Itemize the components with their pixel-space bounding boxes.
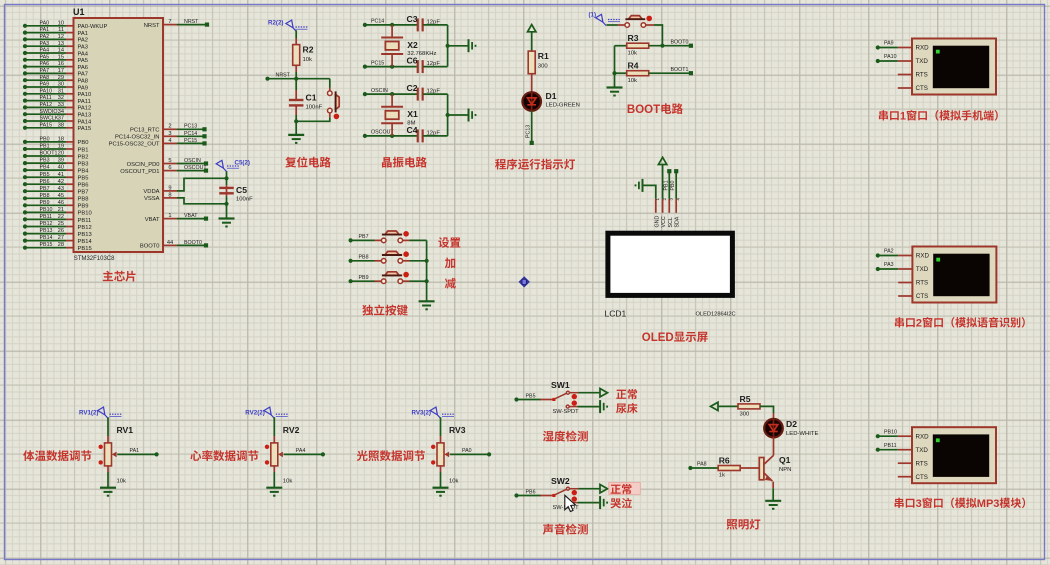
svg-text:PB15: PB15 <box>78 246 92 252</box>
svg-text:Q1: Q1 <box>779 455 791 465</box>
capacitor C4 <box>417 129 419 142</box>
wire RV2 bottom to ground <box>273 466 275 472</box>
wire PA9 to RXD <box>878 47 898 49</box>
svg-text:PB9: PB9 <box>40 200 50 206</box>
node VSSA junction <box>224 202 228 206</box>
transistor Q1 NPN <box>773 449 775 455</box>
blue origin marker R2(2) <box>286 20 293 28</box>
U1 left pin PB7 (pin 43) wire <box>25 190 66 192</box>
U1 left pin PA10 (pin 31) wire <box>25 93 66 95</box>
OLED display LCD1 body <box>608 233 733 295</box>
wire R5 to D2 <box>760 406 774 413</box>
node BOOT0 junction <box>660 44 664 48</box>
U1 left pin PA0 (pin 10) wire <box>25 25 66 27</box>
blue cursor cross marker <box>519 276 530 287</box>
U1 left pin PA5 (pin 15) wire <box>25 59 66 61</box>
svg-text:19: 19 <box>58 144 64 150</box>
svg-text:PB13: PB13 <box>78 232 92 238</box>
power arrow left of R5 <box>711 402 719 410</box>
wire SW2 top contact to power <box>570 488 579 490</box>
svg-text:PC14: PC14 <box>184 131 197 137</box>
U1 left pin PB8 (pin 45) wire <box>25 197 66 199</box>
svg-text:PA4: PA4 <box>78 51 89 57</box>
U1 left pin SWDIO (pin 34) wire <box>25 113 66 115</box>
svg-text:PA13: PA13 <box>78 113 92 119</box>
svg-text:LCD1: LCD1 <box>605 309 627 319</box>
U1 left pin PB10 (pin 21) wire <box>25 211 66 213</box>
svg-text:38: 38 <box>58 122 64 128</box>
svg-text:GND: GND <box>654 216 660 228</box>
svg-text:R5: R5 <box>740 394 751 404</box>
svg-text:PA9: PA9 <box>884 41 894 47</box>
svg-text:29: 29 <box>58 75 64 81</box>
svg-text:RTS: RTS <box>916 460 928 467</box>
svg-text:SW1: SW1 <box>551 380 570 390</box>
wire wiper to PA1 <box>117 453 156 455</box>
svg-text:10: 10 <box>58 20 64 26</box>
svg-text:PA12: PA12 <box>40 102 53 108</box>
wire GND pin to side ground <box>644 185 656 198</box>
svg-text:D2: D2 <box>786 419 797 429</box>
svg-text:32.768KHz: 32.768KHz <box>407 51 436 57</box>
LED D2 <box>764 419 783 438</box>
svg-text:10k: 10k <box>628 51 638 57</box>
ground (sideways) <box>468 109 470 122</box>
svg-text:SW2: SW2 <box>551 476 570 486</box>
svg-text:17: 17 <box>58 68 64 74</box>
label 体温数据调节 <box>23 450 34 461</box>
wire OSCOUT row <box>365 135 417 137</box>
ground below RV3 <box>433 487 449 489</box>
ground below key bus <box>419 300 435 302</box>
svg-text:TXD: TXD <box>916 266 929 273</box>
svg-text:PB0: PB0 <box>78 140 89 146</box>
svg-text:RV1(2): RV1(2) <box>79 410 99 417</box>
serial terminal window 3 (P3) <box>912 427 996 483</box>
ground below RV2 <box>266 487 282 489</box>
svg-text:RXD: RXD <box>916 45 930 52</box>
svg-text:PB5: PB5 <box>40 172 50 178</box>
ground (sideways) <box>468 39 470 52</box>
ground below C5 <box>219 217 235 219</box>
svg-text:SCL: SCL <box>668 217 674 227</box>
U1 left pin BOOT1 (pin 20) wire <box>25 155 66 157</box>
svg-text:PA2: PA2 <box>40 34 50 40</box>
svg-text:13: 13 <box>58 41 64 47</box>
wire power to R2 <box>295 30 297 38</box>
svg-text:9: 9 <box>168 185 171 191</box>
svg-text:CTS: CTS <box>916 85 928 92</box>
wire RV3 bottom to ground <box>440 466 442 472</box>
svg-text:PB7: PB7 <box>78 190 89 196</box>
svg-text:PA9: PA9 <box>40 82 50 88</box>
capacitor C2 <box>417 88 419 101</box>
wire wiper to PA0 <box>450 453 489 455</box>
svg-text:PA7: PA7 <box>40 68 50 74</box>
svg-text:VCC: VCC <box>661 216 667 227</box>
wire wiper to PA4 <box>284 453 323 455</box>
svg-text:PB7: PB7 <box>359 234 369 240</box>
svg-text:PB2: PB2 <box>78 154 89 160</box>
svg-text:SWDIO: SWDIO <box>40 109 58 115</box>
svg-text:6: 6 <box>168 165 171 171</box>
svg-text:PB3: PB3 <box>40 158 50 164</box>
resistor R6 <box>718 466 740 471</box>
svg-text:PA0-WKUP: PA0-WKUP <box>78 24 108 30</box>
main chip U1 STM32F103C8 body <box>74 18 164 252</box>
U1 left pin PA1 (pin 11) wire <box>25 32 66 34</box>
svg-text:PC14-OSC32_IN: PC14-OSC32_IN <box>115 135 159 141</box>
svg-text:PA8: PA8 <box>40 75 50 81</box>
wire keys ground bus <box>426 240 428 301</box>
svg-text:300: 300 <box>740 412 751 418</box>
node C1/button junction <box>294 119 298 123</box>
svg-text:2: 2 <box>916 318 922 330</box>
svg-text:C5(2): C5(2) <box>235 160 250 167</box>
svg-text:10k: 10k <box>117 479 127 485</box>
svg-text:PB11: PB11 <box>78 218 92 224</box>
svg-text:PA4: PA4 <box>40 48 50 54</box>
label 正常 (SW2) <box>611 485 621 494</box>
label 减 <box>445 278 456 289</box>
mouse cursor <box>565 495 576 511</box>
svg-text:R4: R4 <box>628 61 639 71</box>
push button BOOT <box>628 16 642 20</box>
wire PB10 to RXD <box>878 435 898 437</box>
ground below RV1 <box>100 487 116 489</box>
svg-text:PB14: PB14 <box>78 239 93 245</box>
wire button bottom branch <box>296 117 330 121</box>
label 正常 (SW1) <box>616 390 626 399</box>
svg-text:LED-WHITE: LED-WHITE <box>786 431 818 437</box>
svg-text:PA7: PA7 <box>78 72 89 78</box>
svg-text:(1): (1) <box>589 12 597 19</box>
svg-text:3: 3 <box>168 131 171 137</box>
svg-text:41: 41 <box>58 172 64 178</box>
LED D1 <box>522 92 541 111</box>
svg-text:1k: 1k <box>719 473 725 479</box>
U1 left pin PA6 (pin 16) wire <box>25 66 66 68</box>
svg-text:45: 45 <box>58 193 64 199</box>
wire R3 left to bus <box>615 45 627 47</box>
wire button top branch <box>329 79 331 88</box>
svg-text:BOOT: BOOT <box>627 104 660 116</box>
svg-text:PA8: PA8 <box>78 79 89 85</box>
svg-text:C3: C3 <box>407 14 418 24</box>
label 串口2窗口（模拟语音识别） <box>895 317 904 327</box>
capacitor C5 <box>219 187 234 189</box>
power arrow for OLED VCC <box>662 164 664 198</box>
push button key 设置 <box>385 231 399 235</box>
U1 left pin PA4 (pin 14) wire <box>25 52 66 54</box>
wire PB9 to key <box>351 280 375 282</box>
svg-text:PC13: PC13 <box>526 125 532 138</box>
U1 left pin PB12 (pin 25) wire <box>25 226 66 228</box>
svg-text:14: 14 <box>58 48 64 54</box>
label 程序运行指示灯 <box>495 159 506 170</box>
RV3 wiper arrow <box>444 452 449 458</box>
wire power to R1 <box>531 32 533 51</box>
wire R4 left <box>615 72 627 74</box>
svg-text:PB0: PB0 <box>670 180 676 190</box>
svg-text:OSCOUT: OSCOUT <box>184 165 207 171</box>
U1 left pin PB5 (pin 41) wire <box>25 176 66 178</box>
U1 right pin OSCIN (pin 5) wire <box>163 163 177 165</box>
svg-text:15: 15 <box>58 54 64 60</box>
svg-text:R2: R2 <box>303 45 314 55</box>
svg-text:PA2: PA2 <box>78 38 89 44</box>
wire SW1 bottom contact to ground <box>569 406 577 408</box>
svg-text:OSCIN: OSCIN <box>371 88 388 94</box>
svg-text:7: 7 <box>168 19 171 25</box>
wire PC15 row <box>365 66 417 68</box>
crystal X1 <box>391 94 393 107</box>
svg-text:MP3: MP3 <box>977 498 1000 510</box>
svg-text:STM32F103C8: STM32F103C8 <box>74 256 115 262</box>
label 照明灯 <box>727 519 738 529</box>
resistor R5 <box>738 404 760 409</box>
serial terminal window 2 (P2) <box>912 247 996 303</box>
wire R4 right / BOOT1 out <box>649 72 691 74</box>
wire PB6 to SW2 <box>517 495 542 497</box>
ground below bus <box>607 86 623 88</box>
wire power to R5 <box>718 405 738 407</box>
svg-text:BOOT1: BOOT1 <box>671 67 689 73</box>
U1 left pin PB14 (pin 27) wire <box>25 240 66 242</box>
crystal X2 <box>391 25 393 38</box>
svg-text:PB3: PB3 <box>78 161 89 167</box>
svg-text:PA10: PA10 <box>40 88 53 94</box>
wire C2 to ground riser <box>423 93 447 95</box>
svg-text:27: 27 <box>58 235 64 241</box>
svg-text:PB8: PB8 <box>359 254 369 260</box>
svg-text:SW-SPDT: SW-SPDT <box>553 409 580 415</box>
svg-text:34: 34 <box>58 109 64 115</box>
svg-text:11: 11 <box>58 27 64 33</box>
resistor R3 <box>627 43 649 48</box>
svg-text:22: 22 <box>58 214 64 220</box>
wire to boot button <box>606 24 617 26</box>
label 主芯片 <box>103 271 113 281</box>
wire PB5 to SW1 <box>517 399 542 401</box>
U1 left pin SWCLK (pin 37) wire <box>25 120 66 122</box>
svg-text:OSCIN_PD0: OSCIN_PD0 <box>127 162 160 168</box>
wire SW1 top contact to power <box>570 392 579 394</box>
svg-text:46: 46 <box>58 200 64 206</box>
wire key to bus <box>403 280 410 282</box>
resistor R1 <box>528 51 535 74</box>
svg-text:PA3: PA3 <box>884 262 894 268</box>
svg-text:PA1: PA1 <box>130 448 140 454</box>
label 加 <box>445 258 455 269</box>
svg-text:VSSA: VSSA <box>144 196 160 202</box>
node R4 left junction <box>612 71 616 75</box>
svg-text:C5: C5 <box>236 185 247 195</box>
U1 left pin PB6 (pin 42) wire <box>25 183 66 185</box>
svg-text:PA15: PA15 <box>40 122 53 128</box>
svg-text:40: 40 <box>58 165 64 171</box>
svg-text:CTS: CTS <box>916 293 928 300</box>
svg-text:PB10: PB10 <box>78 211 92 217</box>
ground below Q1 <box>765 500 781 502</box>
wire Q1 emitter to ground <box>772 482 774 489</box>
svg-text:10k: 10k <box>628 78 638 84</box>
svg-text:PA3: PA3 <box>78 45 89 51</box>
svg-text:OLED12864I2C: OLED12864I2C <box>696 312 736 318</box>
node VDDA junction <box>224 176 228 180</box>
RV1 wiper arrow <box>112 452 117 458</box>
svg-text:R6: R6 <box>719 456 730 466</box>
wire PA10 to TXD <box>878 60 898 62</box>
svg-text:PB5: PB5 <box>526 393 536 399</box>
wire to side ground <box>448 45 468 47</box>
wire C4 to ground riser <box>423 135 447 137</box>
capacitor C3 <box>417 18 419 31</box>
svg-text:VDDA: VDDA <box>143 189 159 195</box>
svg-text:NRST: NRST <box>276 72 291 78</box>
svg-text:R2(2): R2(2) <box>268 20 283 27</box>
wire ground riser <box>447 94 449 136</box>
svg-text:U1: U1 <box>73 7 85 17</box>
capacitor C6 <box>417 60 419 73</box>
wire OSCIN row <box>365 93 417 95</box>
svg-text:42: 42 <box>58 179 64 185</box>
svg-text:BOOT0: BOOT0 <box>184 240 202 246</box>
svg-text:BOOT0: BOOT0 <box>671 40 689 46</box>
U1 left pin PB0 (pin 18) wire <box>25 141 66 143</box>
potentiometer RV3 <box>437 443 444 466</box>
wire NRST node down to C1 <box>295 79 297 90</box>
svg-text:PB1: PB1 <box>663 180 669 190</box>
svg-text:16: 16 <box>58 61 64 67</box>
svg-text:33: 33 <box>58 102 64 108</box>
svg-text:PB4: PB4 <box>40 165 50 171</box>
push button reset <box>336 94 340 109</box>
U1 right pin VBAT (pin 1) wire <box>163 218 177 220</box>
label 声音检测 <box>543 524 554 535</box>
label 湿度检测 <box>543 431 554 441</box>
svg-text:C1: C1 <box>306 93 317 103</box>
svg-text:PA11: PA11 <box>78 99 91 105</box>
svg-text:PC15-OSC32_OUT: PC15-OSC32_OUT <box>109 142 160 148</box>
node key bus junction 2 <box>425 279 429 283</box>
svg-text:43: 43 <box>58 186 64 192</box>
label 尿床 <box>616 403 626 413</box>
svg-text:20: 20 <box>58 151 64 157</box>
svg-text:37: 37 <box>58 116 64 122</box>
U1 left pin PB4 (pin 40) wire <box>25 169 66 171</box>
U1 left pin PA9 (pin 30) wire <box>25 86 66 88</box>
wire button to BOOT0 node <box>646 24 654 26</box>
label 串口3窗口（模拟MP3模块） <box>895 498 904 508</box>
potentiometer RV1 <box>105 443 112 466</box>
svg-text:PA6: PA6 <box>40 61 50 67</box>
power arrow above R1 <box>528 25 536 32</box>
svg-text:32: 32 <box>58 95 64 101</box>
svg-text:X2: X2 <box>407 40 418 50</box>
svg-text:PA2: PA2 <box>884 249 894 255</box>
svg-text:NPN: NPN <box>779 467 791 473</box>
svg-text:PA10: PA10 <box>884 54 897 60</box>
U1 left pin PB3 (pin 39) wire <box>25 162 66 164</box>
wire C5 vertical net <box>226 171 228 185</box>
wire PB11 to TXD <box>878 449 898 451</box>
svg-text:OSCOUT: OSCOUT <box>371 130 394 136</box>
svg-text:TXD: TXD <box>916 58 929 65</box>
RV2 adjust dots <box>265 445 269 449</box>
wire R6 to Q1 base <box>740 467 759 469</box>
wire top to RV3 <box>440 417 442 436</box>
U1 left pin PB1 (pin 19) wire <box>25 148 66 150</box>
svg-text:PB9: PB9 <box>359 275 369 281</box>
U1 left pin PB11 (pin 22) wire <box>25 218 66 220</box>
U1 left pin PA8 (pin 29) wire <box>25 79 66 81</box>
U1 left pin PB15 (pin 28) wire <box>25 247 66 249</box>
wire C1 bottom <box>295 106 297 115</box>
svg-text:BOOT0: BOOT0 <box>140 244 160 250</box>
wire RV1 bottom to ground <box>107 466 109 472</box>
svg-text:TXD: TXD <box>916 447 929 454</box>
U1 right pin NRST (pin 7) wire <box>163 24 177 26</box>
label 光照数据调节 <box>357 450 368 461</box>
svg-text:PB13: PB13 <box>40 228 53 234</box>
svg-text:PB4: PB4 <box>78 168 90 174</box>
label 独立按键 <box>362 305 373 316</box>
svg-text:SDA: SDA <box>675 216 681 227</box>
svg-text:PA11: PA11 <box>40 95 52 101</box>
svg-text:BOOT1: BOOT1 <box>40 151 58 157</box>
svg-text:30: 30 <box>58 82 64 88</box>
svg-text:PA3: PA3 <box>40 41 50 47</box>
highlight box around 正常 (SW2) <box>609 483 641 495</box>
wire top to RV1 <box>107 417 109 436</box>
svg-text:PA10: PA10 <box>78 92 92 98</box>
resistor R4 <box>627 71 649 76</box>
power arrow SW1 <box>600 389 608 397</box>
U1 right pin PC13 (pin 2) wire <box>163 128 177 130</box>
svg-text:PC14: PC14 <box>371 19 384 25</box>
svg-text:PB14: PB14 <box>40 235 53 241</box>
wire to side ground <box>448 114 468 116</box>
wire R2 bottom to NRST node <box>295 65 297 72</box>
svg-text:LED-GREEN: LED-GREEN <box>546 103 580 109</box>
svg-text:RXD: RXD <box>916 253 930 260</box>
svg-text:300: 300 <box>538 64 549 70</box>
U1 left pin PA7 (pin 17) wire <box>25 72 66 74</box>
svg-text:39: 39 <box>58 158 64 164</box>
svg-text:12: 12 <box>58 34 64 40</box>
svg-text:CTS: CTS <box>916 474 928 481</box>
svg-text:28: 28 <box>58 242 64 248</box>
svg-text:PB1: PB1 <box>78 147 89 153</box>
U1 pin VSSA (pin 8) wire to C5 node <box>163 197 177 199</box>
wire PA2 to RXD <box>878 255 898 257</box>
svg-text:10k: 10k <box>449 479 459 485</box>
wire SDA to PB0 <box>675 171 677 199</box>
serial terminal window 1 (P1) <box>912 39 996 95</box>
svg-text:1: 1 <box>168 213 171 219</box>
svg-text:RTS: RTS <box>916 280 928 287</box>
svg-text:26: 26 <box>58 228 64 234</box>
svg-text:PB5: PB5 <box>78 176 89 182</box>
svg-text:44: 44 <box>167 240 173 246</box>
svg-text:PC13: PC13 <box>184 124 197 130</box>
ground (sideways right) SW2 <box>599 496 601 509</box>
label 心率数据调节 <box>190 450 201 460</box>
svg-text:PB6: PB6 <box>526 489 536 495</box>
svg-text:VBAT: VBAT <box>184 213 198 219</box>
resistor R2 <box>293 45 300 66</box>
